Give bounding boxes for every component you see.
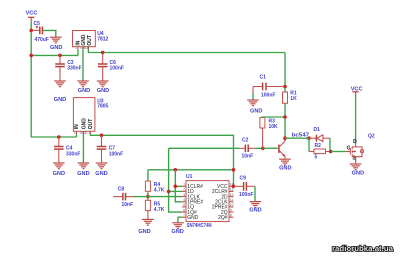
node U1 VCC pin14 xyxy=(232,185,236,189)
voltage regulator U3 7805 xyxy=(73,98,108,135)
node line3 to 5V xyxy=(232,168,236,172)
svg-text:OUT: OUT xyxy=(88,119,94,130)
svg-text:7: 7 xyxy=(183,214,185,218)
svg-text:GND: GND xyxy=(171,229,183,235)
svg-text:4.7K: 4.7K xyxy=(154,207,165,213)
wire C2 to base node xyxy=(256,147,263,149)
svg-text:C8: C8 xyxy=(118,186,125,192)
wire C8 to junction xyxy=(133,196,148,198)
wire vertB to pin2 xyxy=(169,190,182,192)
wire pull-up rail line3 xyxy=(148,169,234,171)
svg-text:GND: GND xyxy=(138,229,150,235)
supply VCC (top-left) xyxy=(26,11,38,22)
capacitor C7 100nF xyxy=(97,135,123,163)
wire U3 OUT rail (5V) to U1 VCC xyxy=(91,134,234,186)
wire base node to Q base xyxy=(263,147,278,149)
capacitor C2 10nF xyxy=(240,137,257,159)
svg-text:GND: GND xyxy=(82,118,88,130)
svg-text:4: 4 xyxy=(183,198,185,202)
ground C9 xyxy=(249,202,261,214)
wire vertical A 1CLR#/1PRE# xyxy=(175,170,182,202)
wire C5 to ground xyxy=(43,30,56,37)
svg-text:4.7K: 4.7K xyxy=(154,188,165,194)
wire R4 bottom to node xyxy=(147,193,149,197)
node C7 tap xyxy=(100,134,104,138)
node collector D1 tap xyxy=(283,136,287,140)
node C1 tap xyxy=(283,85,287,89)
svg-text:330nF: 330nF xyxy=(67,66,81,72)
wire U3 IN drop xyxy=(76,134,78,137)
svg-text:GND: GND xyxy=(54,97,66,103)
svg-text:D1: D1 xyxy=(314,127,321,133)
wire U4 IN drop xyxy=(77,49,79,55)
wire R1 bottom to collector xyxy=(284,103,286,141)
wire R4 top lead xyxy=(147,170,149,181)
capacitor C1 100nF xyxy=(253,75,285,99)
node R2/D1 to gate xyxy=(329,150,333,154)
resistor R2 5 xyxy=(309,143,331,160)
ground C4 xyxy=(53,163,65,177)
svg-text:1: 1 xyxy=(74,131,76,135)
svg-text:100nF: 100nF xyxy=(109,151,123,157)
ground Q2 source xyxy=(350,164,364,176)
wire U4 OUT rail (12V) xyxy=(88,49,285,52)
svg-text:VCC: VCC xyxy=(351,87,363,93)
svg-text:1: 1 xyxy=(75,46,77,50)
node R3 tap xyxy=(283,115,287,119)
svg-text:330nF: 330nF xyxy=(66,151,80,157)
node line3 vertA xyxy=(174,168,178,172)
svg-text:13: 13 xyxy=(230,188,234,192)
ground C7 xyxy=(95,163,107,177)
svg-text:8: 8 xyxy=(230,214,232,218)
svg-text:GND: GND xyxy=(77,171,89,177)
svg-text:SN74HC74N: SN74HC74N xyxy=(187,223,212,229)
svg-text:1K: 1K xyxy=(290,96,297,102)
svg-text:GND: GND xyxy=(97,88,109,94)
transistor Q2 mosfet xyxy=(346,134,375,162)
capacitor C6 100nF xyxy=(98,53,124,81)
node C3 tap xyxy=(58,54,62,58)
svg-text:2Q#: 2Q# xyxy=(218,215,228,221)
wire main left rail xyxy=(31,21,76,137)
node C5 tap xyxy=(29,29,33,33)
svg-text:9: 9 xyxy=(230,208,232,212)
capacitor C8 10nF xyxy=(113,186,133,208)
wire C9 to ground xyxy=(254,186,256,201)
wire split down to R2 xyxy=(308,138,310,151)
svg-text:10: 10 xyxy=(230,203,234,207)
svg-text:R2: R2 xyxy=(315,143,322,149)
svg-text:3: 3 xyxy=(183,193,185,197)
supply VCC (right) xyxy=(351,87,363,96)
svg-text:11: 11 xyxy=(230,198,234,202)
IC U1 SN74HC74N xyxy=(182,174,234,229)
svg-text:10nF: 10nF xyxy=(122,202,134,208)
svg-text:1: 1 xyxy=(183,183,185,187)
svg-text:C2: C2 xyxy=(242,137,249,143)
capacitor C4 330nF xyxy=(54,137,80,163)
wire gate xyxy=(331,151,346,153)
capacitor C3 330nF xyxy=(55,55,81,81)
svg-text:Q2: Q2 xyxy=(368,134,375,140)
node C6 tap xyxy=(101,51,105,55)
wire vertA to pin1 xyxy=(175,185,182,187)
wire VCC to drain xyxy=(355,94,357,143)
wire C1 to ground xyxy=(252,93,254,100)
svg-text:C1: C1 xyxy=(260,75,267,81)
svg-text:VCC: VCC xyxy=(26,11,38,17)
svg-text:2: 2 xyxy=(183,188,185,192)
svg-text:12: 12 xyxy=(230,193,234,197)
svg-text:10K: 10K xyxy=(269,124,279,130)
resistor R1 1K xyxy=(283,90,298,103)
wire source to ground xyxy=(355,157,357,164)
node D1 R2 split xyxy=(307,136,311,140)
node input rail tap xyxy=(29,54,33,58)
svg-text:radiorubka.at.ua: radiorubka.at.ua xyxy=(332,244,394,253)
ground C6 xyxy=(97,81,109,94)
svg-text:100nF: 100nF xyxy=(261,93,275,99)
ground R5 xyxy=(138,219,153,234)
svg-text:U1: U1 xyxy=(186,174,193,180)
svg-text:100nF: 100nF xyxy=(110,66,124,72)
wire U3 GND drop xyxy=(82,134,84,163)
svg-text:GND: GND xyxy=(95,171,107,177)
svg-text:GND: GND xyxy=(352,170,364,176)
capacitor C9 100nF xyxy=(234,175,256,198)
svg-text:10nF: 10nF xyxy=(242,154,254,160)
wire D1 cathode down xyxy=(329,138,331,151)
ground C5 xyxy=(50,37,62,51)
voltage regulator U4 7812 xyxy=(73,31,109,51)
svg-text:GND: GND xyxy=(187,215,199,221)
diode D1 xyxy=(309,127,330,142)
resistor R4 4.7K xyxy=(145,181,164,194)
ground U1 xyxy=(171,223,183,235)
svg-text:GND: GND xyxy=(249,207,261,213)
wire U1 GND pin7 xyxy=(178,217,182,222)
svg-text:GND: GND xyxy=(53,171,65,177)
resistor R3 10K xyxy=(260,118,278,149)
node C4 tap xyxy=(57,135,61,139)
svg-text:GND: GND xyxy=(279,166,291,172)
ground U3 GND pin xyxy=(77,163,89,177)
node vertA pin1 xyxy=(174,185,178,189)
wire line2 1Q# to C2 xyxy=(169,147,240,149)
wire node to 1CLK pin3 xyxy=(148,196,182,198)
svg-text:7812: 7812 xyxy=(97,36,108,42)
node R4 R5 C8 junction xyxy=(146,195,150,199)
svg-text:6: 6 xyxy=(183,208,185,212)
ground U4 GND pin xyxy=(77,81,90,94)
capacitor C5 470uF xyxy=(31,21,49,43)
wire R3 top to R1 bottom node xyxy=(262,116,285,119)
svg-text:GND: GND xyxy=(250,109,262,115)
svg-text:100nF: 100nF xyxy=(239,192,253,198)
svg-text:5: 5 xyxy=(315,154,318,160)
svg-text:5: 5 xyxy=(183,203,185,207)
ground C3 xyxy=(54,81,66,103)
svg-text:C5: C5 xyxy=(34,21,41,27)
svg-text:OUT: OUT xyxy=(87,35,93,46)
wire 1D-1Q# feedback vertical B xyxy=(169,148,182,212)
wire collector to D1/R2 split xyxy=(285,137,309,139)
wire U4 GND drop xyxy=(82,49,84,81)
wire 7812 input rail xyxy=(31,54,78,56)
svg-text:GND: GND xyxy=(50,45,62,51)
resistor R5 4.7K xyxy=(145,197,164,219)
node vertB pin2 xyxy=(167,190,171,194)
node base junction xyxy=(261,147,265,151)
svg-text:470uF: 470uF xyxy=(35,37,49,43)
svg-text:7805: 7805 xyxy=(97,103,108,109)
transistor bc547 xyxy=(279,133,309,159)
wire 12V down / R1 chain vertical xyxy=(284,53,286,93)
ground emitter xyxy=(279,159,291,171)
ground C1 xyxy=(247,100,262,115)
svg-text:IN: IN xyxy=(74,124,80,129)
svg-text:C9: C9 xyxy=(240,175,247,181)
svg-text:GND: GND xyxy=(78,88,90,94)
